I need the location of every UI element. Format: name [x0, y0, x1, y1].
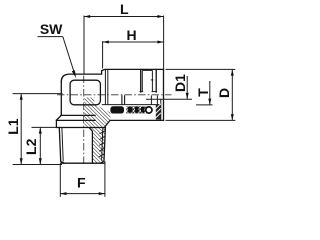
dimension F — [59, 164, 61, 197]
svg-text:F: F — [77, 175, 86, 191]
thread teeth on sectioned stud wall — [99, 131, 105, 157]
svg-text:D: D — [216, 88, 232, 98]
stud bottom face — [61, 162, 105, 164]
collet lines bottom — [150, 96, 152, 105]
dimension L1 — [20, 94, 22, 165]
release collet lines top — [140, 69, 142, 92]
svg-text:D1: D1 — [172, 74, 188, 92]
hex flange top line — [61, 114, 95, 116]
vertical centerline of stud axis — [83, 76, 85, 167]
dimension H — [103, 41, 164, 43]
stud bore line section — [90, 128, 93, 163]
stud right thread outline — [101, 128, 106, 164]
dimension L2 — [39, 127, 41, 164]
svg-text:T: T — [195, 88, 211, 97]
svg-text:L2: L2 — [23, 138, 39, 155]
body outline: elbow housing top — [61, 69, 163, 81]
dimension T — [209, 81, 211, 105]
horizontal centerline of tube axis — [57, 94, 172, 96]
grip ring toothed band — [126, 106, 146, 113]
body outline: left edge and flange — [56, 82, 104, 128]
dimension L — [84, 16, 164, 18]
thread bore line (T reference) — [102, 104, 161, 106]
svg-text:SW: SW — [40, 21, 63, 37]
svg-text:H: H — [126, 27, 136, 43]
cartridge cavity edges below axis — [121, 95, 123, 104]
sleeve step ticks — [104, 69, 106, 104]
stud external thread lines — [59, 128, 64, 164]
hex chamfer line — [56, 119, 95, 121]
dimension D — [166, 68, 236, 70]
O-ring at collet — [146, 107, 152, 113]
connector right face — [163, 69, 165, 120]
release sleeve wall section — [156, 104, 161, 120]
connector bottom edge — [104, 120, 163, 127]
hatch: elbow corner section wall — [84, 97, 110, 127]
hex boss rounded square — [70, 80, 100, 105]
svg-text:L1: L1 — [5, 118, 21, 135]
svg-text:L: L — [120, 1, 129, 17]
dimension D1 — [186, 76, 188, 99]
tube bore line (D1 reference) — [146, 98, 192, 100]
O-ring seal (black) — [110, 106, 124, 113]
hatch: stud right wall section — [90, 128, 106, 164]
